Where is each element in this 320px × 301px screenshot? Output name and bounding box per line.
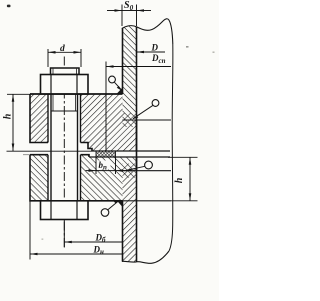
dimension bp: extension lines (95, 157, 97, 174)
dimension bp: dimension line with outside arrows (86, 170, 97, 172)
lower pipe outer wall line (122, 201, 124, 262)
gasket outline (96, 151, 116, 157)
upper flange outline (30, 94, 137, 151)
bolt thread inner lines (top end) (52, 69, 54, 75)
upper pipe end / inner weld seam line (123, 119, 172, 121)
lower flange hatch (30, 155, 48, 201)
svg-text:Dсп: Dсп (151, 53, 166, 65)
nut (41, 75, 89, 95)
callout balloon 1 (upper outer weld) (114, 82, 122, 90)
flange top face line (30, 93, 123, 95)
bolt head face lines (50, 201, 52, 220)
lower flange bottom far edge across bore (123, 200, 172, 202)
lower flange outline (30, 155, 137, 201)
dimension Dn: extension line from flange edge (29, 201, 31, 260)
upper flange hatch (right of bolt hole) (81, 94, 137, 151)
svg-text:Dн: Dн (93, 245, 105, 257)
upper inner weld cross-hatch zone (123, 113, 137, 120)
callout balloon 2 (pipe end weld) (133, 105, 153, 118)
dimension d: extension lines (47, 49, 49, 67)
upper pipe hatch (123, 23, 137, 120)
faint scan speck near bolt head (42, 239, 44, 240)
dimension h right: dimension line with arrows (189, 157, 191, 201)
upper outer weld bead (117, 88, 123, 95)
svg-text:d: d (60, 44, 65, 54)
svg-text:h: h (174, 177, 185, 183)
lower outer weld bead (117, 201, 123, 207)
lower pipe end / inner weld seam line (123, 170, 172, 172)
dimension S0: extension lines (121, 5, 123, 27)
callout balloon 3 (gasket / lower weld) (127, 166, 145, 170)
svg-text:S0: S0 (124, 0, 134, 12)
upper flange bolt hole edges (47, 94, 49, 143)
gasket seat bottom line / lower boss top (89, 156, 170, 158)
scan speck top-left (7, 5, 11, 8)
faint overshoot of lower flange face line (23, 154, 30, 156)
svg-text:Dб: Dб (95, 233, 107, 245)
dimension h left: dimension line with arrows (12, 94, 14, 151)
bolt thread inner lines (in hole) (52, 94, 54, 111)
break line (freehand vertical) (169, 44, 173, 251)
upper pipe bore line (136, 27, 138, 171)
dimension Db: dimension line with single arrow (64, 241, 122, 243)
dimension Dcp: line with single arrow (106, 66, 171, 68)
lower flange bolt hole edges (47, 155, 49, 201)
white mask below lower wavy break (122, 251, 169, 268)
svg-text:D: D (151, 43, 159, 53)
upper pipe break (wavy top) (122, 19, 173, 44)
label bp halo (97, 161, 111, 170)
upper flange hatch (left of bolt hole) (30, 94, 48, 143)
white mask above upper wavy break (122, 14, 169, 30)
dimension Db: extension line from bolt axis (63, 220, 65, 248)
lower inner weld cross-hatch zone (123, 164, 137, 171)
dimension Dcp: extension line into gasket (105, 62, 107, 152)
dimension h left: extension lines (7, 93, 30, 95)
lower pipe bore line (136, 171, 138, 262)
bolt shank through joint (50, 94, 52, 201)
upper pipe outer wall line (122, 28, 124, 94)
upper flange tongue bottom / gasket top line (92, 150, 170, 152)
bolt centerline (63, 57, 65, 248)
svg-text:h: h (2, 113, 13, 119)
dimension d: dimension line with arrows (48, 51, 81, 53)
dimension Dn: dimension line with single arrow (30, 253, 123, 255)
dimension D: line with single arrow at bore (137, 51, 166, 53)
dimension h right: extension lines (168, 156, 198, 158)
bolt thread runout line (51, 110, 78, 112)
bolt head (41, 201, 89, 220)
faint scan specks right side (186, 46, 189, 48)
gasket cross-hatched (96, 151, 116, 157)
callout balloon 4 (lower outer weld) (108, 200, 120, 210)
bolt protruding end above nut (51, 68, 80, 75)
lower pipe break (wavy bottom) (122, 251, 169, 263)
lower pipe hatch (123, 171, 137, 263)
nut hexagon face lines (50, 75, 52, 95)
dimension S0: dimension line, outside arrows (107, 10, 122, 12)
